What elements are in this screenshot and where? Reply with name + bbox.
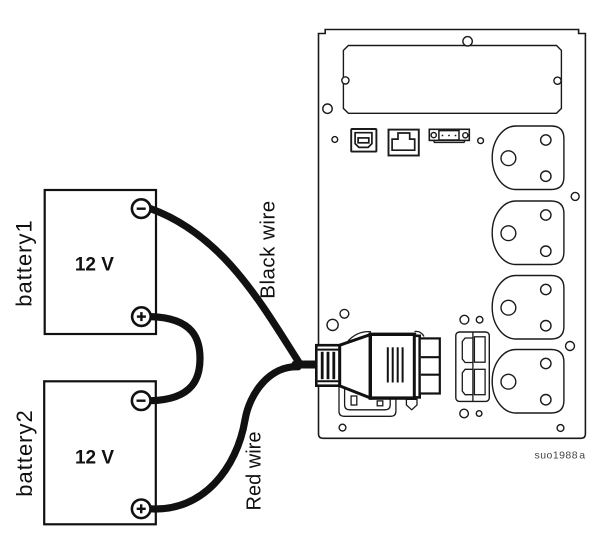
recess arc right of plug bbox=[415, 331, 425, 336]
battery2 box bbox=[44, 381, 156, 524]
serial EPO connector bbox=[429, 129, 469, 142]
screw hole above IEC block right bbox=[476, 316, 483, 323]
battery1 box bbox=[45, 190, 156, 334]
dual IEC block bbox=[456, 332, 490, 401]
screw hole right mid upper bbox=[571, 192, 579, 200]
connector end block bbox=[420, 338, 440, 393]
screw hole top center bbox=[463, 37, 472, 46]
screw hole right of serial bbox=[478, 138, 484, 144]
screw hole above IEC block left bbox=[460, 315, 469, 324]
outlet 2 bbox=[492, 201, 564, 265]
svg-text:Black wire: Black wire bbox=[257, 200, 280, 298]
connector strain relief bbox=[316, 345, 339, 386]
svg-text:12 V: 12 V bbox=[75, 255, 114, 276]
recess arc left of plug bbox=[348, 332, 371, 341]
screw hole left of USB bbox=[332, 137, 338, 143]
screw hole left upper bbox=[323, 104, 332, 113]
connector body bbox=[370, 334, 414, 398]
bottom IEC inlet bbox=[462, 369, 473, 394]
top IEC inlet bbox=[462, 338, 473, 363]
red wire from battery2 positive to connector bbox=[151, 367, 299, 509]
RJ45 ethernet port bbox=[389, 130, 419, 156]
battery1 positive terminal bbox=[132, 307, 151, 326]
screw hole slot left bbox=[342, 77, 349, 84]
screw hole below IEC block left bbox=[460, 409, 469, 418]
battery2 negative terminal bbox=[132, 391, 151, 410]
screw hole slot right bbox=[554, 77, 561, 84]
svg-text:battery1: battery1 bbox=[12, 219, 37, 307]
svg-text:suo1988a: suo1988a bbox=[535, 450, 586, 462]
battery2 positive terminal bbox=[132, 500, 151, 519]
outlet 3 bbox=[492, 276, 564, 340]
screw hole mid-left small bbox=[340, 309, 349, 318]
black wire from battery1 negative to connector bbox=[151, 209, 300, 363]
battery inlet recess (thin lines behind connector) bbox=[339, 331, 424, 416]
UPS rear panel outline bbox=[319, 30, 586, 439]
connector trapezoid neck bbox=[340, 335, 371, 398]
screw hole bottom left bbox=[339, 424, 346, 431]
battery1 negative terminal bbox=[132, 199, 151, 218]
series wire battery1 plus to battery2 minus bbox=[151, 317, 200, 401]
connector flange bbox=[415, 336, 420, 398]
ground pin pentagon bbox=[406, 399, 417, 410]
svg-text:12 V: 12 V bbox=[75, 448, 114, 469]
merged wire stub into connector bbox=[296, 361, 318, 369]
USB-B port bbox=[351, 129, 376, 152]
svg-text:battery2: battery2 bbox=[12, 409, 37, 497]
screw hole mid-left large bbox=[327, 319, 338, 330]
outlet 1 bbox=[492, 126, 564, 190]
slot cover plate bbox=[343, 46, 561, 114]
svg-text:Red wire: Red wire bbox=[244, 432, 266, 511]
screw hole below IEC block right bbox=[476, 411, 482, 417]
screw hole right mid lower bbox=[566, 342, 575, 351]
outlet 4 bbox=[492, 350, 564, 414]
screw hole bottom right bbox=[557, 425, 564, 432]
